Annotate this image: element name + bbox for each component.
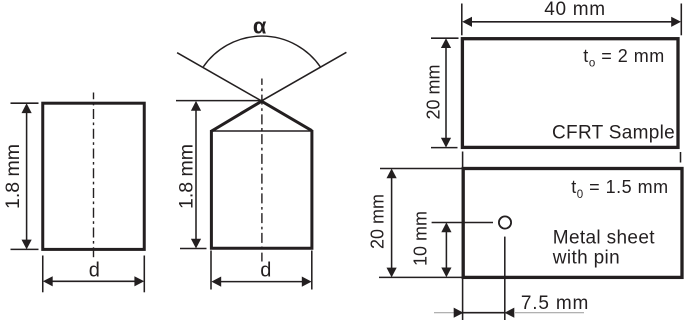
CFRT sample outline [462,39,678,148]
20 mm bottom dimension line [387,169,397,278]
right gap extension line [680,152,682,163]
svg-text:with pin: with pin [552,248,620,269]
svg-text:1.8 mm: 1.8 mm [2,144,24,209]
middle specimen body (thick sides, bottom and roof) [211,101,312,248]
20 mm top dimension line [441,38,451,147]
svg-text:CFRT Sample: CFRT Sample [552,123,675,144]
svg-text:1.8 mm: 1.8 mm [175,144,197,209]
middle d dimension line [211,277,311,287]
20 mm bottom lower extension line [379,276,462,278]
left d left extension line [42,256,44,293]
left 1.8 mm bottom extension line [11,248,39,250]
middle 1.8 mm dimension line [191,101,201,249]
20 mm top lower extension line [431,147,458,149]
left specimen outline [43,103,145,249]
middle specimen top edge thin line [211,130,313,132]
left 1.8 mm dimension line [22,103,32,249]
svg-text:10 mm: 10 mm [411,211,431,266]
left 1.8 mm top extension line [11,102,39,104]
svg-text:20 mm: 20 mm [368,194,388,249]
40 mm right extension line [680,4,682,36]
20 mm top upper extension line [431,37,459,39]
40 mm dimension line [462,17,681,27]
middle 1.8 mm top extension line [176,100,262,102]
left specimen centerline [93,93,95,258]
svg-text:Metal sheet: Metal sheet [553,227,655,248]
left d right extension line [143,256,145,293]
svg-text:40 mm: 40 mm [544,0,606,20]
long left extension line [462,152,464,321]
10 mm dimension line [441,222,451,277]
7.5 mm left grey tail [434,312,454,314]
groove angle line right [241,52,347,113]
svg-text:7.5 mm: 7.5 mm [521,293,589,314]
svg-text:d: d [89,260,100,282]
10 mm pin extension line [432,222,493,224]
middle 1.8 mm bottom extension line [180,248,207,250]
middle d right extension line [311,251,313,290]
7.5 mm right grey tail [515,312,584,314]
svg-text:d: d [260,260,271,282]
svg-text:α: α [253,13,267,38]
20 mm bottom upper extension line [380,168,462,170]
svg-text:20 mm: 20 mm [423,64,443,119]
pin circle [499,216,511,228]
left d dimension line [43,276,144,286]
middle d left extension line [210,251,212,290]
middle centerline [261,79,263,262]
pin center line [504,237,506,320]
metal sheet outline [463,169,682,278]
groove angle arc [203,36,320,67]
7.5 mm dimension line [454,308,515,318]
groove angle line left [177,53,283,114]
40 mm left extension line [461,4,463,36]
